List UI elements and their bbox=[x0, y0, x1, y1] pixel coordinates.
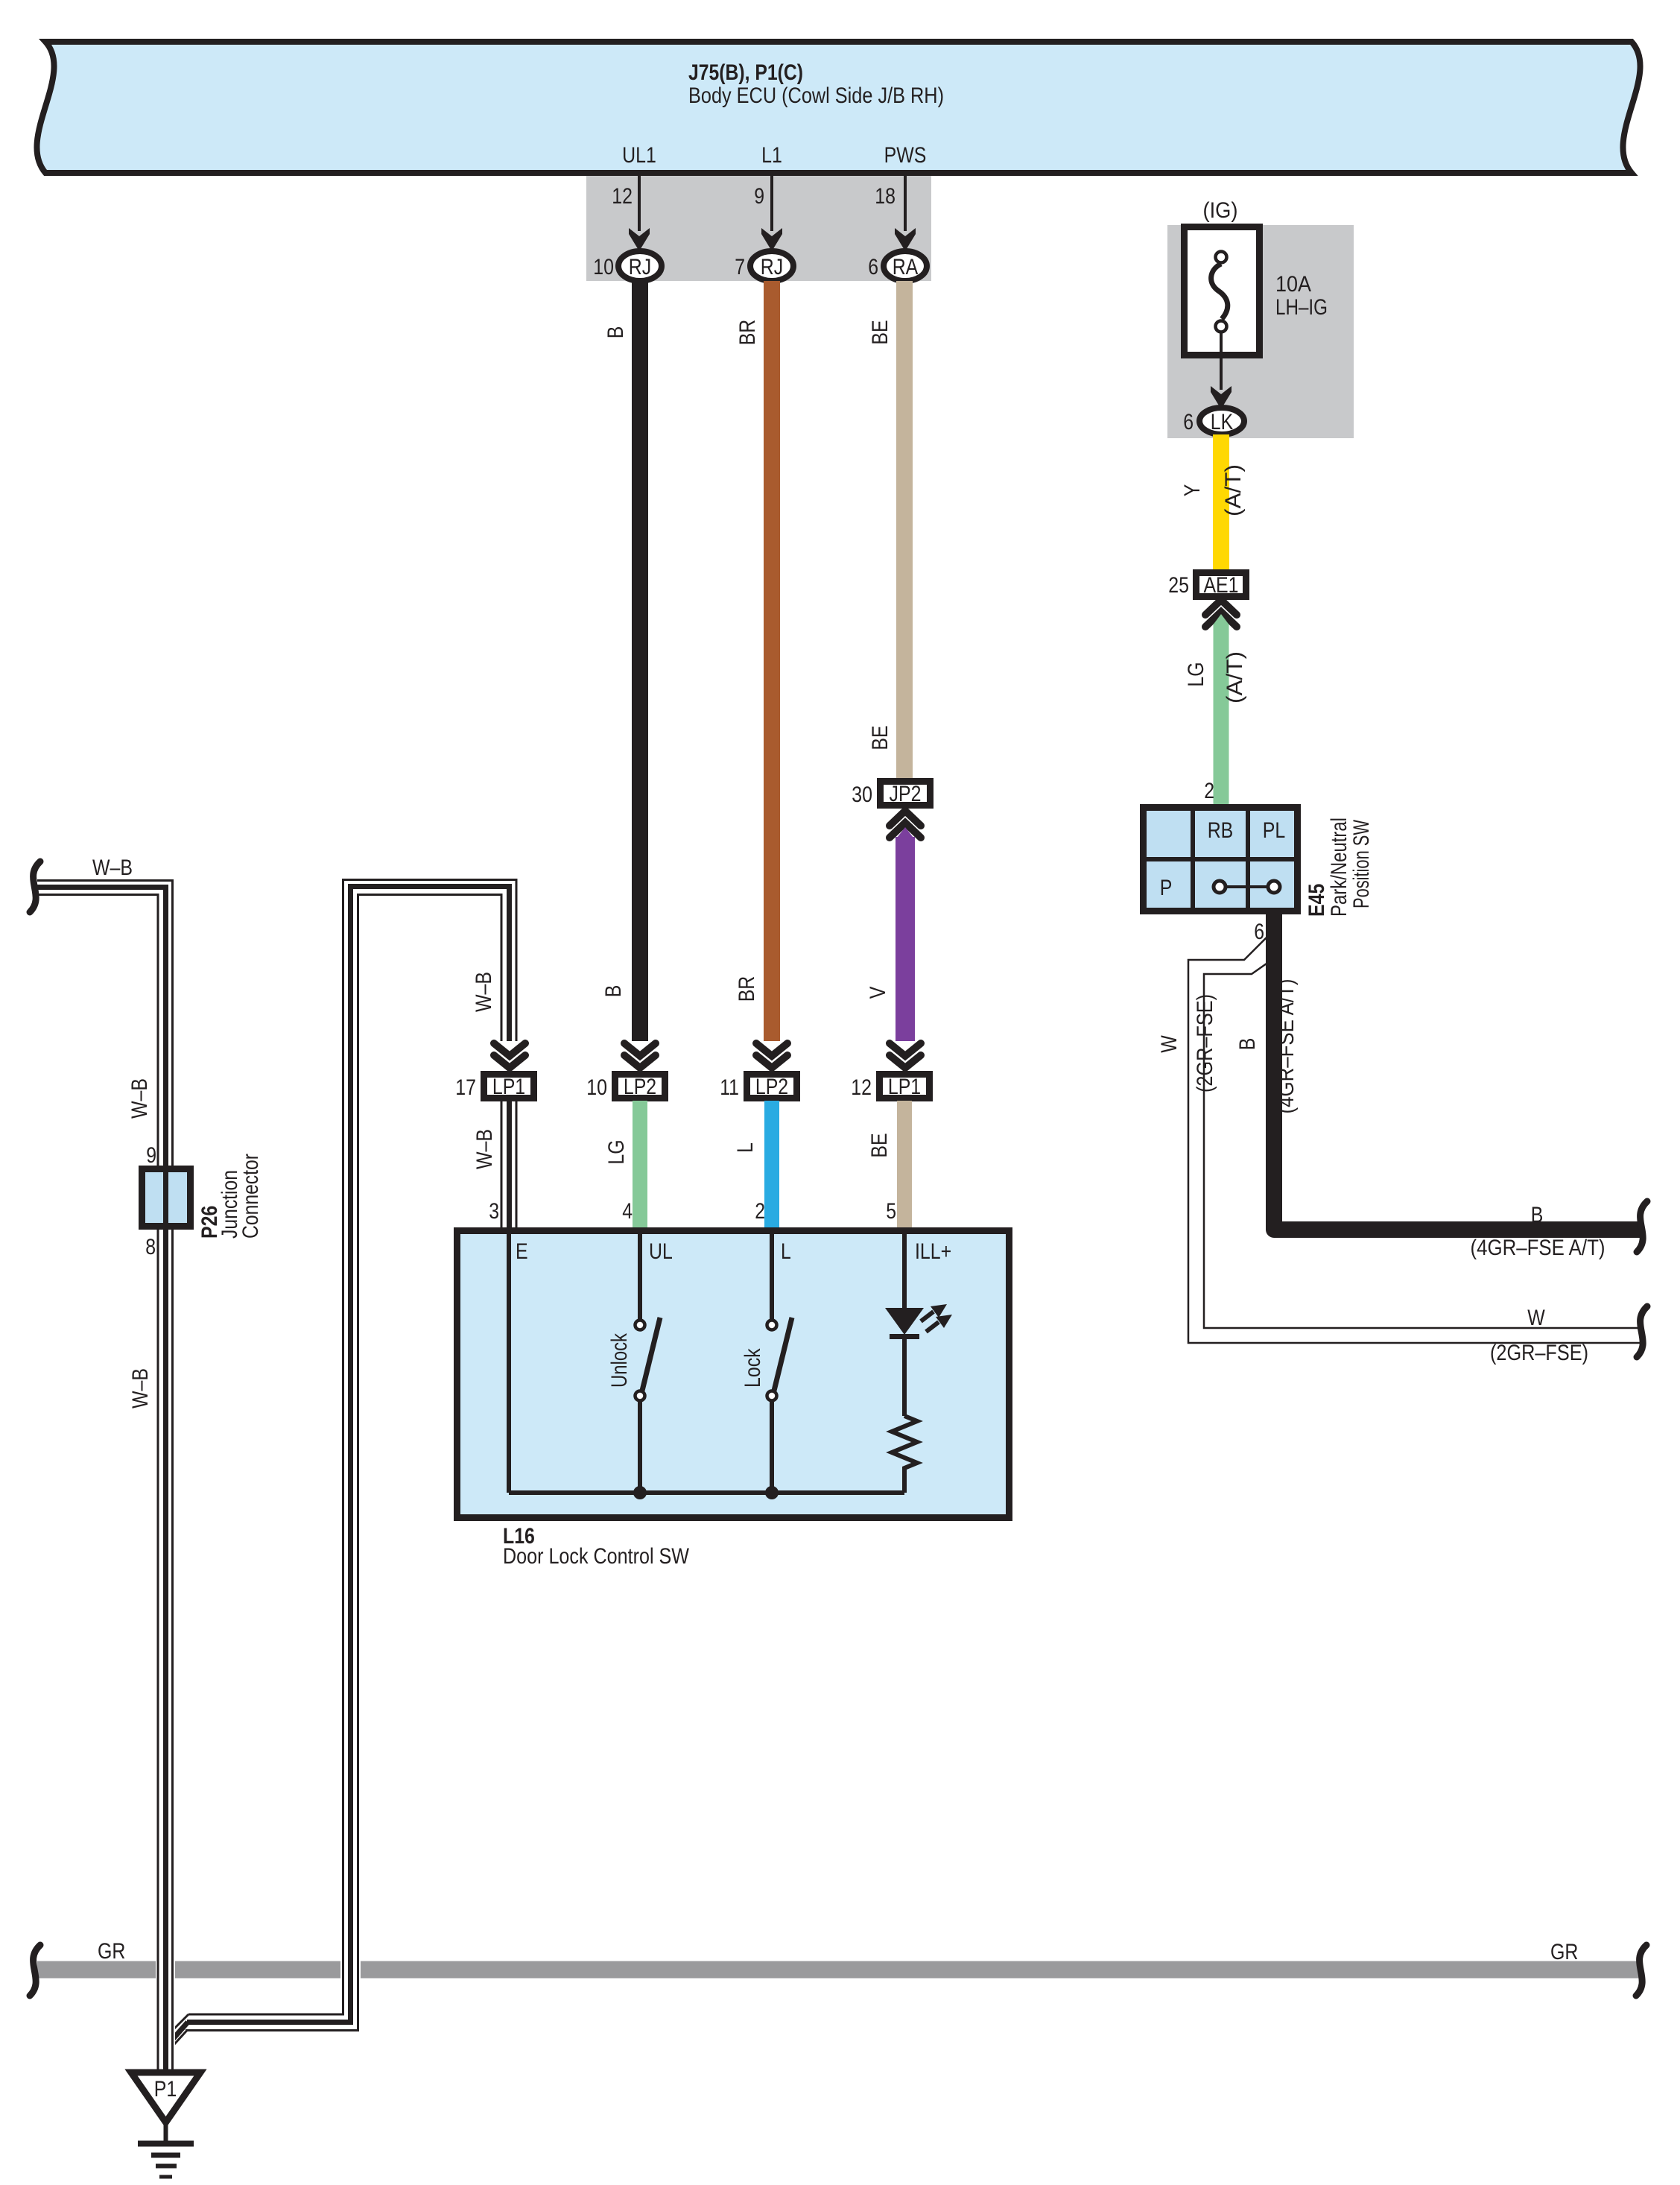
junction node UL bbox=[633, 1486, 647, 1499]
svg-text:5: 5 bbox=[886, 1199, 896, 1224]
break symbol W-B top left bbox=[30, 861, 40, 912]
switch Lock bbox=[767, 1321, 777, 1330]
svg-text:6: 6 bbox=[868, 255, 878, 279]
fuse block shading bbox=[1167, 225, 1354, 438]
svg-text:W–B: W–B bbox=[472, 972, 496, 1012]
svg-text:6: 6 bbox=[1183, 410, 1194, 434]
pin 12 lead bbox=[638, 176, 641, 231]
junction block shading bbox=[586, 176, 931, 281]
svg-text:JP2: JP2 bbox=[890, 782, 922, 806]
svg-text:B: B bbox=[601, 985, 626, 998]
svg-text:LH–IG: LH–IG bbox=[1275, 295, 1328, 320]
wire LG green to pin 4 bbox=[633, 1101, 647, 1230]
svg-text:BR: BR bbox=[735, 976, 759, 1002]
svg-text:(IG): (IG) bbox=[1203, 198, 1238, 223]
connector LP2 pin 11 bbox=[747, 1075, 797, 1098]
svg-text:18: 18 bbox=[875, 184, 896, 209]
fuse element bbox=[1216, 252, 1227, 263]
wire B (4GR-FSE A/T) bbox=[1274, 914, 1643, 1230]
connector LP2 pin 10 bbox=[615, 1075, 665, 1098]
wire W-B run2 lines bbox=[188, 880, 516, 2015]
svg-text:7: 7 bbox=[735, 255, 745, 279]
component L16 box bbox=[457, 1231, 1009, 1518]
arrow into RJ 10 bbox=[629, 228, 650, 251]
svg-text:BE: BE bbox=[867, 1133, 892, 1157]
node J75(B) P1(C) Body ECU bus bar bbox=[37, 42, 1640, 173]
svg-text:W–B: W–B bbox=[128, 1368, 153, 1408]
svg-text:(2GR–FSE): (2GR–FSE) bbox=[1490, 1341, 1588, 1365]
svg-text:RB: RB bbox=[1208, 818, 1234, 843]
break symbol W wire end bbox=[1637, 1306, 1647, 1357]
svg-text:10: 10 bbox=[593, 255, 614, 279]
svg-text:LG: LG bbox=[604, 1139, 629, 1164]
svg-text:Body ECU (Cowl Side J/B RH): Body ECU (Cowl Side J/B RH) bbox=[688, 83, 944, 108]
wire BE beige from RA6 bbox=[896, 281, 913, 778]
svg-text:RA: RA bbox=[893, 255, 919, 279]
connector JP2 pin 30 bbox=[881, 782, 931, 806]
LED emission arrows bbox=[921, 1312, 933, 1321]
svg-text:ILL+: ILL+ bbox=[915, 1239, 951, 1264]
arrow down into LP1 12 bbox=[890, 1043, 921, 1068]
svg-text:W–B: W–B bbox=[472, 1129, 497, 1169]
svg-text:9: 9 bbox=[146, 1143, 156, 1168]
svg-text:Position SW: Position SW bbox=[1349, 820, 1374, 908]
svg-text:2: 2 bbox=[755, 1199, 765, 1224]
svg-text:RJ: RJ bbox=[629, 255, 651, 279]
svg-text:B: B bbox=[603, 326, 628, 339]
svg-text:P1: P1 bbox=[154, 2077, 177, 2102]
svg-text:L: L bbox=[781, 1239, 791, 1264]
arrow up below JP2 bbox=[890, 811, 921, 838]
junction node L bbox=[765, 1486, 779, 1499]
svg-text:J75(B), P1(C): J75(B), P1(C) bbox=[688, 60, 803, 85]
arrow into RJ 7 bbox=[761, 228, 782, 251]
pin L lead bbox=[770, 1234, 774, 1320]
fuse 10A LH-IG box bbox=[1185, 227, 1260, 355]
svg-text:11: 11 bbox=[720, 1075, 739, 1100]
ground bars bbox=[138, 2141, 194, 2147]
pin UL lead bbox=[638, 1234, 642, 1320]
arrow up into AE1 bbox=[1205, 600, 1237, 627]
break symbol B wire end bbox=[1637, 1201, 1647, 1252]
arrow into RA 6 bbox=[895, 228, 916, 251]
connector LP1 pin 12 bbox=[880, 1075, 930, 1098]
svg-text:LP1: LP1 bbox=[888, 1075, 921, 1099]
wire W-B run2 body bbox=[186, 877, 519, 2032]
svg-text:B: B bbox=[1531, 1203, 1544, 1227]
svg-text:LP2: LP2 bbox=[624, 1075, 656, 1099]
connector AE1 pin 25 bbox=[1196, 573, 1246, 597]
svg-text:AE1: AE1 bbox=[1203, 573, 1238, 598]
connector E45 Park/Neutral Position SW bbox=[1140, 804, 1301, 914]
svg-text:E45: E45 bbox=[1305, 884, 1329, 917]
wire Y yellow bbox=[1213, 434, 1229, 569]
svg-text:(2GR–FSE): (2GR–FSE) bbox=[1193, 994, 1217, 1092]
svg-text:GR: GR bbox=[98, 1939, 125, 1964]
svg-text:L: L bbox=[733, 1142, 758, 1153]
pin ILL+ lead bbox=[902, 1234, 907, 1308]
internal bus line bbox=[509, 1490, 904, 1495]
svg-text:25: 25 bbox=[1168, 573, 1189, 598]
svg-text:30: 30 bbox=[852, 782, 872, 807]
pin 18 lead bbox=[904, 176, 907, 231]
svg-text:V: V bbox=[866, 987, 890, 999]
svg-text:B: B bbox=[1235, 1038, 1260, 1051]
svg-text:(A/T): (A/T) bbox=[1223, 651, 1247, 703]
wire BE beige to pin 5 bbox=[897, 1101, 912, 1230]
svg-text:10: 10 bbox=[586, 1075, 607, 1100]
arrow down into LP2 11 bbox=[756, 1043, 787, 1068]
connector RJ pin 7 bbox=[750, 251, 793, 281]
resistor bbox=[892, 1416, 917, 1493]
svg-text:(A/T): (A/T) bbox=[1221, 464, 1246, 516]
break symbol GR right bbox=[1636, 1945, 1646, 1996]
svg-text:10A: 10A bbox=[1275, 272, 1311, 297]
svg-text:Y: Y bbox=[1180, 484, 1205, 497]
svg-text:Door Lock Control SW: Door Lock Control SW bbox=[503, 1544, 690, 1569]
svg-text:12: 12 bbox=[612, 184, 633, 209]
svg-text:2: 2 bbox=[1204, 779, 1214, 803]
svg-text:BE: BE bbox=[868, 725, 893, 750]
connector P26 junction box bbox=[142, 1169, 191, 1227]
switch Unlock bbox=[635, 1321, 645, 1330]
svg-text:RJ: RJ bbox=[761, 255, 783, 279]
svg-text:PWS: PWS bbox=[884, 143, 927, 168]
connector LK pin 6 bbox=[1199, 408, 1244, 434]
arrow down into LP1 17 bbox=[494, 1043, 525, 1068]
LED illumination bbox=[885, 1308, 924, 1335]
svg-text:3: 3 bbox=[489, 1199, 499, 1224]
svg-text:8: 8 bbox=[145, 1235, 156, 1259]
svg-text:LK: LK bbox=[1211, 410, 1234, 434]
arrow down into LP2 10 bbox=[624, 1043, 656, 1068]
svg-text:UL1: UL1 bbox=[622, 143, 656, 168]
svg-text:17: 17 bbox=[455, 1075, 476, 1100]
svg-text:E: E bbox=[516, 1239, 528, 1264]
svg-text:LP1: LP1 bbox=[492, 1075, 525, 1099]
wire L blue to pin 2 bbox=[764, 1101, 779, 1230]
svg-text:UL: UL bbox=[649, 1239, 673, 1264]
pin E lead bbox=[507, 1234, 511, 1493]
svg-text:W: W bbox=[1527, 1306, 1545, 1330]
svg-text:9: 9 bbox=[754, 184, 764, 209]
break symbol GR left bbox=[30, 1945, 40, 1996]
svg-text:(4GR–FSE A/T): (4GR–FSE A/T) bbox=[1274, 979, 1299, 1114]
wire GR gray bbox=[37, 1961, 1643, 1979]
svg-text:(4GR–FSE A/T): (4GR–FSE A/T) bbox=[1471, 1236, 1605, 1260]
svg-text:4: 4 bbox=[622, 1199, 633, 1224]
lead from fuse to LK bbox=[1220, 333, 1223, 390]
wire LG green (A/T) bbox=[1214, 624, 1229, 804]
svg-text:Park/Neutral: Park/Neutral bbox=[1327, 818, 1351, 917]
wire W-B run1 lines bbox=[37, 881, 173, 2073]
svg-text:LG: LG bbox=[1184, 662, 1208, 686]
svg-text:GR: GR bbox=[1550, 1940, 1578, 1964]
svg-text:Unlock: Unlock bbox=[607, 1332, 632, 1388]
svg-text:12: 12 bbox=[851, 1075, 872, 1100]
svg-text:W–B: W–B bbox=[127, 1078, 152, 1119]
wire W white outline bbox=[1188, 937, 1643, 1343]
ground stem bbox=[164, 2122, 168, 2141]
svg-text:PL: PL bbox=[1263, 818, 1286, 843]
ground P1 triangle bbox=[131, 2072, 200, 2122]
connector RJ pin 10 bbox=[618, 251, 662, 281]
svg-text:Lock: Lock bbox=[741, 1348, 765, 1388]
svg-text:Connector: Connector bbox=[238, 1154, 263, 1239]
svg-text:W–B: W–B bbox=[92, 856, 133, 880]
svg-text:BR: BR bbox=[735, 320, 760, 346]
svg-text:P: P bbox=[1160, 876, 1173, 900]
pin 9 lead bbox=[770, 176, 773, 231]
connector RA pin 6 bbox=[884, 251, 927, 281]
arrow into LK bbox=[1211, 386, 1232, 409]
svg-text:BE: BE bbox=[868, 320, 893, 344]
svg-text:L1: L1 bbox=[761, 143, 782, 168]
svg-text:LP2: LP2 bbox=[755, 1075, 788, 1099]
wire BR brown from RJ7 bbox=[764, 281, 780, 1041]
switch contacts inside E45 bbox=[1226, 885, 1268, 888]
connector LP1 pin 17 bbox=[484, 1075, 534, 1098]
wire W-B run2 elbow diagonals bbox=[170, 2014, 188, 2033]
wire V violet bbox=[896, 837, 915, 1041]
wire W-B body bbox=[37, 878, 175, 2072]
wire B black from RJ10 bbox=[632, 281, 648, 1041]
svg-text:W: W bbox=[1157, 1035, 1182, 1053]
